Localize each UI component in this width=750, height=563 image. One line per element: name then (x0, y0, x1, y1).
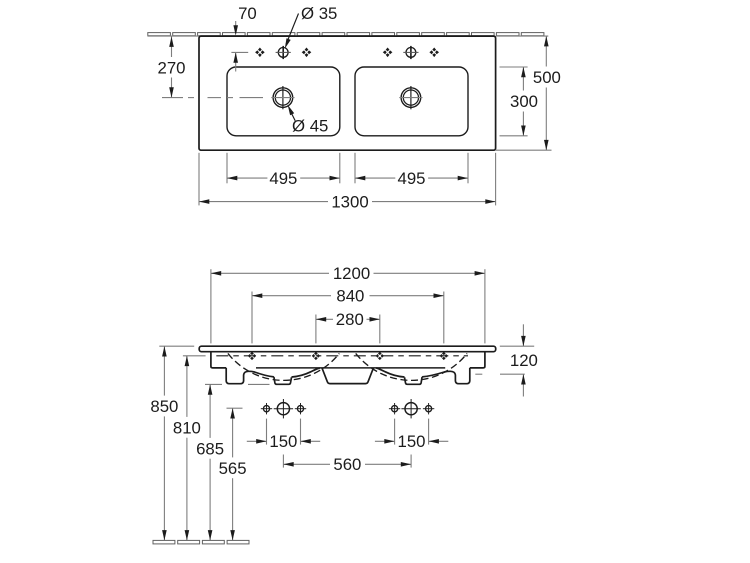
svg-text:685: 685 (196, 439, 224, 458)
svg-text:495: 495 (398, 169, 426, 188)
svg-text:280: 280 (336, 310, 364, 329)
svg-text:560: 560 (333, 455, 361, 474)
svg-text:120: 120 (510, 351, 538, 370)
svg-text:840: 840 (336, 287, 364, 306)
svg-text:500: 500 (533, 68, 561, 87)
svg-text:850: 850 (150, 397, 178, 416)
svg-text:150: 150 (398, 432, 426, 451)
svg-text:1200: 1200 (333, 264, 370, 283)
svg-text:70: 70 (238, 4, 257, 23)
svg-text:Ø 45: Ø 45 (292, 116, 328, 135)
svg-text:495: 495 (269, 169, 297, 188)
svg-text:Ø 35: Ø 35 (301, 4, 337, 23)
svg-text:1300: 1300 (331, 192, 368, 211)
svg-text:810: 810 (173, 418, 201, 437)
svg-text:150: 150 (269, 432, 297, 451)
svg-text:565: 565 (219, 459, 247, 478)
svg-text:300: 300 (510, 92, 538, 111)
svg-text:270: 270 (158, 58, 186, 77)
